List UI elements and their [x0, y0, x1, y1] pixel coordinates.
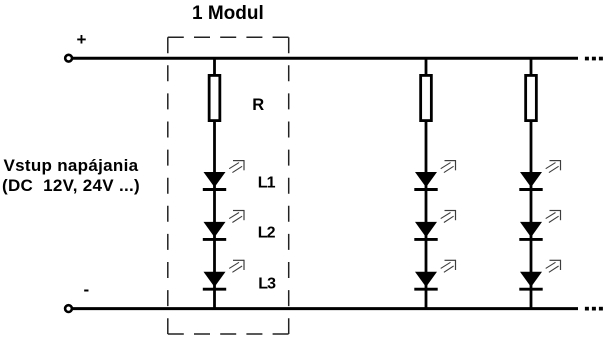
resistor (branch 2) — [421, 75, 432, 120]
LED 3 (branch 2) — [414, 260, 456, 289]
continuation dots top right — [585, 57, 603, 61]
terminal: + input terminal circle — [65, 55, 72, 62]
wire: + supply rail (top) — [73, 57, 578, 60]
LED 3 (branch 3) — [519, 260, 561, 289]
LED L3 (branch 1) — [203, 260, 245, 289]
LED 2 (branch 3) — [519, 210, 561, 239]
wire: branch 3 vertical — [530, 58, 533, 308]
LED 2 (branch 2) — [414, 210, 456, 239]
LED L1 (branch 1) — [203, 160, 245, 189]
svg-text:L1: L1 — [258, 174, 276, 191]
wire: branch 2 vertical — [425, 58, 428, 308]
terminal: - input terminal circle — [65, 305, 72, 312]
wire: branch 1 vertical — [213, 58, 216, 308]
module boundary: dashed box around module 1 — [168, 37, 289, 334]
svg-text:(DC 12V, 24V ...): (DC 12V, 24V ...) — [2, 176, 140, 195]
svg-text:L3: L3 — [258, 275, 276, 292]
svg-text:L2: L2 — [258, 224, 276, 241]
svg-text:R: R — [252, 96, 264, 114]
resistor (branch 3) — [526, 75, 537, 120]
svg-text:+: + — [77, 30, 87, 49]
LED 1 (branch 2) — [414, 160, 456, 189]
LED 1 (branch 3) — [519, 160, 561, 189]
LED L2 (branch 1) — [203, 210, 245, 239]
svg-text:Vstup napájania: Vstup napájania — [4, 156, 139, 175]
wire: - supply rail (bottom) — [73, 307, 578, 310]
svg-text:1 Modul: 1 Modul — [192, 3, 264, 24]
svg-text:-: - — [84, 280, 90, 299]
resistor R1 (branch 1) — [209, 75, 220, 120]
continuation dots bottom right — [585, 307, 603, 311]
